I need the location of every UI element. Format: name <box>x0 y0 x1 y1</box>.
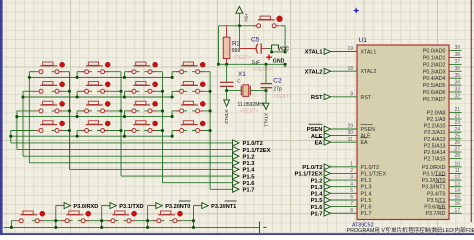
svg-text:P1.5: P1.5 <box>243 174 256 180</box>
svg-text:P3.6/WR: P3.6/WR <box>424 205 445 211</box>
wire crystal to XTAL1 node <box>250 90 266 92</box>
pin 30 wire (ALE) <box>331 135 358 137</box>
svg-text:7: 7 <box>350 201 353 207</box>
svg-text:P2.1/A9: P2.1/A9 <box>427 117 446 123</box>
push button S7 <box>133 84 150 86</box>
svg-text:21: 21 <box>454 107 460 113</box>
svg-text:39: 39 <box>454 45 460 51</box>
junction dots bottom row <box>10 226 13 229</box>
terminal P1.0/T2 arrow at chip <box>324 164 330 170</box>
terminal XTAL1 (down) <box>263 103 269 109</box>
wire ground rail to C2 <box>265 64 267 83</box>
junction node RST top <box>238 24 241 27</box>
svg-text:P1.3: P1.3 <box>311 185 324 191</box>
reset button S17 <box>258 19 275 21</box>
svg-text:<TEXT>: <TEXT> <box>253 67 272 73</box>
svg-text:XTAL2: XTAL2 <box>223 110 229 125</box>
svg-text:<TEXT>: <TEXT> <box>273 94 292 100</box>
push button S6 <box>86 84 103 86</box>
terminal P1.1 arrow (center column) <box>233 147 239 153</box>
svg-text:P0.0/AD0: P0.0/AD0 <box>423 49 446 55</box>
pin 8 wire (P1.7) <box>331 212 358 214</box>
terminal P3.2 arrow <box>156 203 162 209</box>
svg-text:U1: U1 <box>359 37 368 44</box>
svg-text:P3.7/RD: P3.7/RD <box>425 211 445 217</box>
capacitor C2 <box>261 83 273 85</box>
capacitor C5 <box>256 44 258 54</box>
junction dots VCC node <box>270 50 273 53</box>
svg-text:P1.7: P1.7 <box>311 211 323 217</box>
window bottom border <box>0 233 474 235</box>
wire ground rail to C3 <box>226 64 228 82</box>
svg-text:P2.3/A11: P2.3/A11 <box>424 130 445 136</box>
svg-text:999: 999 <box>232 48 241 54</box>
svg-text:P1.4: P1.4 <box>361 191 372 197</box>
pin 1 wire (P1.0/T2) <box>331 166 358 168</box>
svg-text:P2.6/A14: P2.6/A14 <box>424 150 446 156</box>
junction XTAL2 node <box>225 89 228 92</box>
svg-text:P3.1/TXD: P3.1/TXD <box>423 171 446 177</box>
svg-text:P1.1/T2EX: P1.1/T2EX <box>243 148 271 154</box>
pin 12 wire (P3.2/INT0) <box>449 179 462 181</box>
svg-text:3: 3 <box>350 175 353 181</box>
svg-text:11.0592MHz: 11.0592MHz <box>238 102 266 108</box>
svg-text:P3.3/INT1: P3.3/INT1 <box>211 204 236 210</box>
svg-text:18: 18 <box>347 66 353 72</box>
svg-text:P2.5/A13: P2.5/A13 <box>424 143 446 149</box>
svg-text:32: 32 <box>454 94 460 100</box>
svg-text:31: 31 <box>347 137 353 143</box>
svg-text:ALE: ALE <box>361 134 371 140</box>
pin 33 wire (P0.6/AD6) <box>449 91 462 93</box>
svg-text:10: 10 <box>454 161 460 167</box>
push button S12 <box>181 104 198 106</box>
crystal X1 <box>240 86 242 96</box>
wire ground rail <box>219 63 286 65</box>
push button S8 <box>181 84 198 86</box>
svg-text:33: 33 <box>454 87 460 93</box>
svg-text:29: 29 <box>347 124 353 130</box>
junction dots ground rail <box>225 63 228 66</box>
pin 24 wire (P2.3/A11) <box>449 131 462 133</box>
pin 21 wire (P2.0/A8) <box>449 111 462 113</box>
power terminal VCC <box>272 45 279 52</box>
pin 16 wire (P3.6/WR) <box>449 206 462 208</box>
terminal P1.4 arrow at chip <box>324 190 330 196</box>
pin 25 wire (P2.4/A12) <box>449 138 462 140</box>
wire VCC node <box>272 51 286 53</box>
pin 34 wire (P0.5/AD5) <box>449 84 462 86</box>
pin 9 wire (RST) <box>331 96 358 98</box>
svg-text:P1.1/T2EX: P1.1/T2EX <box>294 172 322 178</box>
svg-text:27: 27 <box>454 147 460 153</box>
svg-text:13: 13 <box>454 181 460 187</box>
svg-text:P3.0/RXD: P3.0/RXD <box>422 165 446 171</box>
svg-text:P1.7: P1.7 <box>361 211 372 217</box>
wire C5 to VCC node <box>268 48 272 50</box>
svg-text:RST: RST <box>361 95 372 101</box>
terminal EA arrow at chip <box>324 139 330 145</box>
svg-text:1: 1 <box>350 161 353 167</box>
svg-text:P1.3: P1.3 <box>361 185 372 191</box>
push button S9 <box>40 104 57 106</box>
svg-text:P2.7/A15: P2.7/A15 <box>424 157 446 163</box>
svg-text:P0.4/AD4: P0.4/AD4 <box>423 76 446 82</box>
op-amp U1 body (AT89C52 chip) <box>357 45 449 220</box>
pin 11 wire (P3.1/TXD) <box>449 172 462 174</box>
push button S5 <box>40 84 57 86</box>
push button S16 <box>181 124 198 126</box>
svg-text:P2.2/A10: P2.2/A10 <box>424 124 446 130</box>
svg-text:9: 9 <box>350 91 353 97</box>
terminal P1.5 arrow at chip <box>324 197 330 203</box>
terminal P3.3 arrow <box>202 203 208 209</box>
window left border <box>0 0 3 235</box>
wire RST node to C5 <box>238 26 240 49</box>
svg-text:ALE: ALE <box>311 134 323 140</box>
svg-text:24: 24 <box>454 127 460 133</box>
wire C2 to XTAL1 node <box>265 88 267 91</box>
terminal P3.1 arrow <box>110 203 116 209</box>
push button S18 <box>66 214 83 216</box>
terminal P1.4 arrow (center column) <box>233 166 239 172</box>
pin 23 wire (P2.2/A10) <box>449 125 462 127</box>
svg-text:P1.6: P1.6 <box>243 181 256 187</box>
pin 14 wire (P3.4/T0) <box>449 192 462 194</box>
push button S13 <box>40 124 57 126</box>
terminal P1.2 arrow at chip <box>324 177 330 183</box>
terminal P1.7 arrow at chip <box>324 210 330 216</box>
pin 13 wire (P3.3/INT1) <box>449 186 462 188</box>
svg-text:<TEXT>: <TEXT> <box>240 108 259 114</box>
svg-text:P1.4: P1.4 <box>243 168 256 174</box>
svg-text:P1.2: P1.2 <box>311 178 323 184</box>
origin marker (blue star) <box>353 7 359 13</box>
svg-text:X1: X1 <box>238 71 246 78</box>
push button S4 <box>181 65 198 67</box>
terminal XTAL2 arrow at chip <box>324 68 330 74</box>
terminal P3.0 arrow <box>64 203 70 209</box>
svg-text:P2.0/A8: P2.0/A8 <box>427 110 446 116</box>
wire C3 to XTAL2 node <box>226 86 228 90</box>
svg-text:5: 5 <box>350 188 353 194</box>
push button S11 <box>133 104 150 106</box>
svg-text:XTAL2: XTAL2 <box>305 69 323 75</box>
power +5V symbol <box>236 7 243 14</box>
junction dots keypad matrix <box>28 76 31 79</box>
svg-text:P3.4/T0: P3.4/T0 <box>427 191 446 197</box>
svg-text:P0.5/AD5: P0.5/AD5 <box>423 83 446 89</box>
svg-text:P1.0/T2: P1.0/T2 <box>243 141 263 147</box>
svg-text:EA: EA <box>314 140 323 146</box>
resistor R2 <box>223 37 230 58</box>
svg-text:XTAL1: XTAL1 <box>262 113 268 128</box>
pin 31 wire (EA) <box>331 141 358 143</box>
junction RST branch on ground rail <box>217 63 220 66</box>
pin 32 wire (P0.7/AD7) <box>449 98 462 100</box>
wire RST top rail <box>219 25 257 27</box>
sheet right edge line <box>470 0 472 222</box>
svg-text:35: 35 <box>454 73 460 79</box>
svg-text:P1.0/T2: P1.0/T2 <box>302 165 322 171</box>
svg-text:16: 16 <box>454 201 460 207</box>
pin 10 wire (P3.0/RXD) <box>449 166 462 168</box>
svg-text:25: 25 <box>454 133 460 139</box>
svg-text:P3.2/INT0: P3.2/INT0 <box>422 178 446 184</box>
pin 37 wire (P0.2/AD2) <box>449 63 462 65</box>
svg-text:P0.7/AD7: P0.7/AD7 <box>423 97 446 103</box>
svg-text:P1.2: P1.2 <box>361 178 372 184</box>
svg-text:C5: C5 <box>251 37 260 44</box>
terminal P1.6 arrow at chip <box>324 204 330 210</box>
svg-text:8: 8 <box>350 208 353 214</box>
pin 18 wire (XTAL2) <box>331 70 358 72</box>
svg-text:37: 37 <box>454 59 460 65</box>
pin 36 wire (P0.3/AD3) <box>449 70 462 72</box>
junction XTAL1 node <box>264 89 267 92</box>
svg-text:11: 11 <box>455 168 460 174</box>
svg-text:36: 36 <box>454 66 460 72</box>
svg-text:P1.5: P1.5 <box>361 198 372 204</box>
svg-text:PSEN: PSEN <box>361 127 376 133</box>
push button S15 <box>133 124 150 126</box>
terminal P1.1/T2EX arrow at chip <box>324 171 330 177</box>
terminal RST arrow at chip <box>324 94 330 100</box>
pin 3 wire (P1.2) <box>331 179 358 181</box>
svg-text:12: 12 <box>454 175 460 181</box>
svg-text:XTAL1: XTAL1 <box>361 50 377 56</box>
svg-text:P1.1/T2EX: P1.1/T2EX <box>361 171 387 177</box>
svg-text:VCC: VCC <box>278 46 289 52</box>
svg-text:XTAL1: XTAL1 <box>305 50 324 56</box>
pin 17 wire (P3.7/RD) <box>449 212 462 214</box>
pin 39 wire (P0.0/AD0) <box>449 50 462 52</box>
svg-text:2: 2 <box>350 168 353 174</box>
terminal P1.3 arrow (center column) <box>233 160 239 166</box>
svg-text:6: 6 <box>350 195 353 201</box>
push button S1 <box>40 65 57 67</box>
wire bottom button row and ground rail <box>4 226 260 228</box>
svg-text:P3.1/TXD: P3.1/TXD <box>119 204 143 210</box>
svg-text:4: 4 <box>350 181 353 187</box>
push button S20 <box>158 214 175 216</box>
terminal P1.7 arrow (center column) <box>233 186 239 192</box>
terminal P1.2 arrow (center column) <box>233 153 239 159</box>
svg-text:P1.6: P1.6 <box>361 205 372 211</box>
pin 26 wire (P2.5/A13) <box>449 144 462 146</box>
pin 2 wire (P1.1/T2EX) <box>331 172 358 174</box>
svg-text:P3.0/RXD: P3.0/RXD <box>73 204 98 210</box>
pin 15 wire (P3.5/T1) <box>449 199 462 201</box>
pin 29 wire (PSEN) <box>331 128 358 130</box>
svg-text:28: 28 <box>454 153 460 159</box>
svg-text:P1.7: P1.7 <box>243 188 255 194</box>
push button S14 <box>86 124 103 126</box>
wire XTAL2 node to terminal <box>226 91 228 100</box>
svg-text:P1.4: P1.4 <box>311 192 324 198</box>
svg-text:38: 38 <box>454 52 460 58</box>
svg-text:RST: RST <box>311 95 323 101</box>
svg-text:1uF: 1uF <box>252 60 261 66</box>
terminal P1.6 arrow (center column) <box>233 180 239 186</box>
terminal P1.3 arrow at chip <box>324 184 330 190</box>
terminal P1.5 arrow (center column) <box>233 173 239 179</box>
svg-text:XTAL2: XTAL2 <box>361 69 377 75</box>
svg-text:P1.6: P1.6 <box>311 205 324 211</box>
svg-text:P0.6/AD6: P0.6/AD6 <box>423 90 446 96</box>
svg-text:+5V: +5V <box>244 14 249 23</box>
svg-text:P1.5: P1.5 <box>311 198 324 204</box>
svg-text:P0.2/AD2: P0.2/AD2 <box>423 62 446 68</box>
svg-text:EA: EA <box>361 140 369 146</box>
svg-text:14: 14 <box>454 188 460 194</box>
pin 5 wire (P1.4) <box>331 192 358 194</box>
pin 22 wire (P2.1/A9) <box>449 118 462 120</box>
pin 27 wire (P2.6/A14) <box>449 151 462 153</box>
wire RST branch down to ground rail <box>218 26 220 65</box>
svg-text:P1.2: P1.2 <box>243 154 255 160</box>
wire XTAL2 node to crystal <box>227 90 242 92</box>
svg-text:P3.3/INT1: P3.3/INT1 <box>422 185 446 191</box>
push button S2 <box>86 65 103 67</box>
pin 35 wire (P0.4/AD4) <box>449 77 462 79</box>
pin 6 wire (P1.5) <box>331 199 358 201</box>
svg-text:PSEN: PSEN <box>307 127 323 133</box>
svg-text:P3.2/INT0: P3.2/INT0 <box>165 204 190 210</box>
svg-text:17: 17 <box>454 208 460 214</box>
svg-text:GND: GND <box>273 59 285 65</box>
svg-text:C2: C2 <box>273 78 282 85</box>
ground terminal GND <box>284 64 286 67</box>
pin 28 wire (P2.7/A15) <box>449 158 462 160</box>
push button S3 <box>133 65 150 67</box>
push button S17 <box>21 214 38 216</box>
capacitor C3 <box>220 81 234 83</box>
svg-text:22: 22 <box>454 114 460 120</box>
terminal P1.0 arrow (center column) <box>233 140 239 146</box>
svg-text:34: 34 <box>454 80 460 86</box>
svg-text:15: 15 <box>454 195 460 201</box>
terminal XTAL1 arrow at chip <box>324 49 330 55</box>
polarity plus C5 <box>266 54 272 60</box>
push button S19 <box>112 214 129 216</box>
svg-text:<TEXT>: <TEXT> <box>233 55 252 61</box>
pin 4 wire (P1.3) <box>331 186 358 188</box>
svg-text:27p: 27p <box>273 86 282 92</box>
svg-text:PROGRAM用 V写'单片机'程序控制(数码LED!内部F: PROGRAM用 V写'单片机'程序控制(数码LED!内部F0E波形 <box>347 226 474 234</box>
wire XTAL1 node to terminal <box>265 91 267 104</box>
pin 38 wire (P0.1/AD1) <box>449 57 462 59</box>
svg-text:19: 19 <box>347 46 353 52</box>
pin 19 wire (XTAL1) <box>331 51 358 53</box>
terminal XTAL2 (down) <box>224 100 230 106</box>
svg-text:26: 26 <box>454 140 460 146</box>
pin 7 wire (P1.6) <box>331 206 358 208</box>
wire reset button to VCC <box>280 25 285 27</box>
wire keypad column nets to P1.4-P1.7 <box>69 72 71 170</box>
svg-text:P0.1/AD1: P0.1/AD1 <box>423 56 446 62</box>
svg-text:P1.3: P1.3 <box>243 161 256 167</box>
svg-text:23: 23 <box>454 120 460 126</box>
push button S10 <box>86 104 103 106</box>
terminal PSEN arrow at chip <box>324 126 330 132</box>
svg-text:P0.3/AD3: P0.3/AD3 <box>423 69 446 75</box>
svg-text:P3.5/T1: P3.5/T1 <box>427 198 446 204</box>
terminal ALE arrow at chip <box>324 133 330 139</box>
svg-text:P1.0/T2: P1.0/T2 <box>361 165 380 171</box>
svg-text:P2.4/A12: P2.4/A12 <box>424 137 446 143</box>
svg-text:30: 30 <box>347 130 353 136</box>
wire rail end mark <box>259 222 261 234</box>
wire keypad row nets and staircase to P1.0-P1.3 <box>29 76 172 78</box>
